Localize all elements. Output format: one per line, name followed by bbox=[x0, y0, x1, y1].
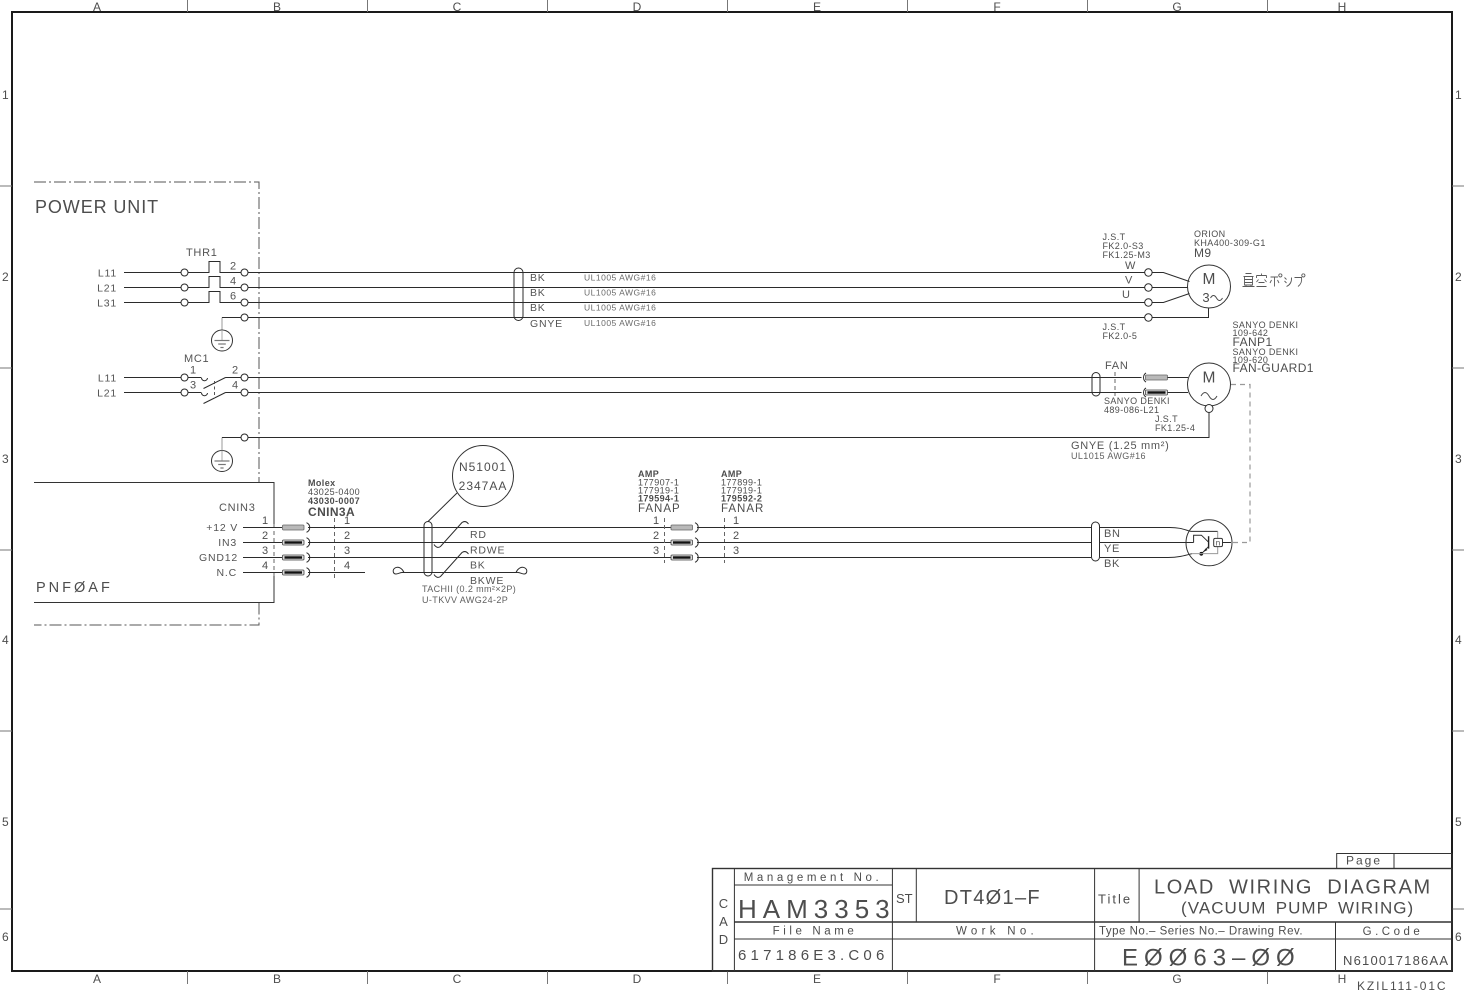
wire crimp2 to fan motor bbox=[1168, 392, 1189, 394]
THR1 heater element pole 1 bbox=[188, 262, 241, 273]
svg-text:2347AA: 2347AA bbox=[459, 479, 508, 493]
svg-text:1: 1 bbox=[1455, 88, 1462, 102]
svg-text:RDWE: RDWE bbox=[470, 545, 505, 557]
crimp contact CNIN3 pin2 bbox=[283, 538, 310, 548]
svg-text:Title: Title bbox=[1098, 892, 1132, 907]
svg-text:G: G bbox=[1172, 0, 1181, 14]
crimp contact CNIN3 pin3 bbox=[283, 553, 310, 563]
wire L11 to THR1 bbox=[124, 272, 181, 274]
svg-text:IN3: IN3 bbox=[218, 537, 237, 549]
svg-text:FAN-GUARD1: FAN-GUARD1 bbox=[1233, 361, 1314, 375]
svg-text:RD: RD bbox=[470, 529, 487, 541]
FANAR mate dashed bbox=[724, 518, 726, 563]
svg-text:4: 4 bbox=[344, 560, 350, 572]
wire fan line 1 bbox=[248, 377, 1142, 379]
sensor output lead bbox=[1223, 542, 1232, 544]
svg-text:FANAP: FANAP bbox=[638, 503, 681, 515]
svg-text:W: W bbox=[1125, 260, 1136, 272]
frame column ticks top bbox=[188, 0, 1268, 12]
svg-text:E: E bbox=[813, 972, 821, 986]
svg-text:N51001: N51001 bbox=[459, 460, 507, 474]
power unit boundary (dash-dot box, open left) bbox=[34, 182, 259, 625]
wire YE into sensor bbox=[1100, 542, 1194, 544]
vacuum pump kanji label bbox=[1243, 274, 1305, 287]
wire PE from ground to terminal bbox=[222, 317, 241, 319]
fan sensor circle bbox=[1186, 520, 1232, 566]
svg-text:UL1015 AWG#16: UL1015 AWG#16 bbox=[1071, 451, 1146, 461]
svg-text:U: U bbox=[1122, 289, 1131, 301]
svg-text:V: V bbox=[1125, 275, 1133, 287]
svg-text:2: 2 bbox=[1455, 270, 1462, 284]
wire YE run bbox=[697, 542, 1091, 544]
THR1 heater element pole 3 bbox=[188, 292, 241, 303]
svg-text:BK: BK bbox=[530, 272, 546, 284]
FANAP mate dashed bbox=[664, 518, 666, 563]
svg-text:179594-1: 179594-1 bbox=[638, 494, 679, 504]
svg-text:3: 3 bbox=[653, 545, 659, 557]
CAD vertical text bbox=[719, 896, 728, 947]
wire GND12 pin3 bbox=[243, 557, 282, 559]
terminal circle THR1-6 bbox=[241, 299, 248, 306]
cable capsule fan sensor bbox=[1092, 522, 1100, 561]
svg-text:N.C: N.C bbox=[217, 567, 237, 579]
cable bundle capsule (pump wires) bbox=[514, 268, 523, 321]
svg-text:FAN: FAN bbox=[1105, 360, 1129, 372]
MC1 fixed contact pole 1 bbox=[188, 378, 208, 381]
svg-text:UL1005 AWG#16: UL1005 AWG#16 bbox=[584, 318, 656, 328]
wire V into motor bbox=[1152, 287, 1187, 289]
svg-text:2: 2 bbox=[262, 530, 268, 542]
terminal circle THR1-3 bbox=[181, 284, 188, 291]
AMP FANAR connector note bbox=[721, 469, 764, 515]
svg-text:4: 4 bbox=[1455, 633, 1462, 647]
PNF0AF connector edge dashed bbox=[273, 524, 275, 576]
wire BKWE stub bbox=[308, 572, 365, 574]
CNIN3A pin numbers bbox=[344, 515, 350, 572]
frame row ticks bbox=[0, 186, 1464, 909]
balloon N51001 2347AA bbox=[453, 446, 514, 507]
sensor base lead bbox=[1194, 535, 1209, 542]
svg-text:MC1: MC1 bbox=[184, 353, 209, 365]
wire RD run bbox=[308, 527, 671, 529]
wire W into motor bbox=[1152, 273, 1189, 282]
wire GNYE fan ground (long) bbox=[248, 413, 1209, 438]
svg-text:C: C bbox=[453, 0, 462, 14]
terminal circle W bbox=[1145, 269, 1152, 276]
J.S.T FK2.0-S3 FK1.25-M3 note bbox=[1103, 232, 1151, 260]
AMP FANAP connector note bbox=[638, 469, 681, 515]
svg-text:L11: L11 bbox=[98, 268, 117, 280]
terminal circle U bbox=[1145, 299, 1152, 306]
sensor n box bbox=[1214, 538, 1223, 546]
wire L21 to THR1 bbox=[124, 287, 181, 289]
svg-text:179592-2: 179592-2 bbox=[721, 494, 762, 504]
svg-text:Type No.– Series No.– Drawing: Type No.– Series No.– Drawing Rev. bbox=[1099, 926, 1303, 938]
svg-text:5: 5 bbox=[2, 815, 9, 829]
svg-text:3: 3 bbox=[1202, 290, 1209, 305]
svg-text:M: M bbox=[1203, 370, 1216, 387]
wire BK into sensor bbox=[1100, 554, 1192, 558]
svg-text:E: E bbox=[813, 0, 821, 14]
svg-text:2: 2 bbox=[2, 270, 9, 284]
ground symbol 2 bbox=[212, 451, 233, 472]
sensor collector rail bbox=[1191, 530, 1218, 532]
wire BK2 run bbox=[697, 557, 1091, 559]
svg-text:6: 6 bbox=[230, 291, 236, 303]
wire L21 to MC1 bbox=[124, 392, 181, 394]
svg-text:2: 2 bbox=[230, 261, 236, 273]
svg-text:2: 2 bbox=[344, 530, 350, 542]
Molex connector note bbox=[308, 478, 360, 519]
CNIN3A mate dashed line bbox=[334, 518, 336, 578]
terminal circle MC1-1 bbox=[181, 374, 188, 381]
svg-text:4: 4 bbox=[230, 276, 236, 288]
frame column letters top bbox=[93, 0, 1346, 14]
terminal circle THR1-2 bbox=[241, 269, 248, 276]
svg-text:D: D bbox=[633, 972, 642, 986]
svg-text:A: A bbox=[93, 972, 101, 986]
fan crimp terminal 1 bbox=[1144, 373, 1168, 382]
svg-text:PNFØAF: PNFØAF bbox=[36, 580, 113, 596]
fan motor circle bbox=[1188, 363, 1231, 406]
terminal circle THR1-4 bbox=[241, 284, 248, 291]
svg-text:C: C bbox=[453, 972, 462, 986]
svg-text:FK1.25-M3: FK1.25-M3 bbox=[1103, 250, 1151, 260]
svg-text:EØØ63–ØØ: EØØ63–ØØ bbox=[1122, 945, 1301, 972]
svg-text:LOAD WIRING DIAGRAM: LOAD WIRING DIAGRAM bbox=[1154, 877, 1432, 899]
sensor emitter dot bbox=[1199, 552, 1203, 556]
svg-text:GNYE: GNYE bbox=[530, 318, 563, 330]
svg-text:489-086-L21: 489-086-L21 bbox=[1104, 405, 1159, 415]
terminal circle PE bbox=[241, 314, 248, 321]
FANAP pin numbers bbox=[653, 515, 659, 557]
ground symbol 1 bbox=[212, 330, 233, 351]
ORION KHA400-309-G1 M9 note bbox=[1194, 229, 1266, 260]
svg-text:L11: L11 bbox=[98, 373, 117, 385]
terminal circle THR1-1 bbox=[181, 269, 188, 276]
coiled wire BKWE bbox=[402, 572, 517, 574]
cable capsule CNIN3A bbox=[424, 522, 432, 577]
wire L11 to MC1 bbox=[124, 377, 181, 379]
wire GNYE to motor bbox=[248, 317, 1145, 319]
FANAR pin numbers bbox=[733, 515, 739, 557]
ground symbol 2 stem bbox=[221, 438, 223, 451]
THR1 heater element pole 2 bbox=[188, 277, 241, 288]
frame column letters bottom bbox=[93, 972, 1346, 986]
svg-text:N610017186AA: N610017186AA bbox=[1343, 953, 1449, 968]
svg-text:+12 V: +12 V bbox=[206, 522, 238, 534]
svg-text:Page: Page bbox=[1346, 854, 1382, 868]
svg-text:1: 1 bbox=[2, 88, 9, 102]
svg-text:BK: BK bbox=[530, 287, 546, 299]
svg-text:BN: BN bbox=[1104, 528, 1121, 540]
MC1 moving blade pole 1 bbox=[204, 378, 226, 389]
crimp contact FANAP pin2 bbox=[671, 538, 698, 548]
svg-text:2: 2 bbox=[733, 530, 739, 542]
frame column ticks bottom bbox=[188, 971, 1268, 984]
coiled wire BKWE left end bbox=[393, 567, 404, 574]
wire BN run bbox=[697, 527, 1091, 529]
sensor emitter bbox=[1202, 547, 1209, 554]
svg-text:CNIN3A: CNIN3A bbox=[308, 505, 355, 519]
wire BK run bbox=[308, 557, 671, 559]
fan guard dashed outline bbox=[1231, 385, 1250, 543]
ground symbol 1 stem bbox=[221, 318, 223, 331]
motor M9 circle bbox=[1188, 265, 1231, 308]
terminal circle MC1-3 bbox=[181, 389, 188, 396]
crimp contact CNIN3 pin1 bbox=[283, 523, 310, 533]
terminal circle PE2 bbox=[241, 434, 248, 441]
svg-text:FK1.25-4: FK1.25-4 bbox=[1155, 423, 1195, 433]
svg-text:H: H bbox=[1338, 972, 1347, 986]
svg-text:M: M bbox=[1203, 271, 1216, 288]
svg-text:G: G bbox=[1172, 972, 1181, 986]
svg-text:DT4Ø1–F: DT4Ø1–F bbox=[944, 887, 1041, 909]
svg-text:1: 1 bbox=[653, 515, 659, 527]
wire PE2 to terminal bbox=[222, 437, 241, 439]
svg-text:FANAR: FANAR bbox=[721, 503, 764, 515]
fan crimp terminal 2 bbox=[1144, 388, 1168, 397]
terminal circle MC1-4 bbox=[241, 389, 248, 396]
svg-text:POWER UNIT: POWER UNIT bbox=[35, 197, 159, 217]
svg-text:A: A bbox=[719, 914, 728, 929]
svg-text:Work No.: Work No. bbox=[956, 926, 1038, 938]
svg-text:3: 3 bbox=[344, 545, 350, 557]
svg-text:C: C bbox=[719, 896, 728, 911]
title block page cell bbox=[1337, 854, 1452, 869]
wire MC1-2 bbox=[226, 377, 242, 379]
terminal circle THR1-5 bbox=[181, 299, 188, 306]
svg-text:TACHII (0.2 mm²×2P): TACHII (0.2 mm²×2P) bbox=[422, 584, 516, 594]
terminal circle MC1-2 bbox=[241, 374, 248, 381]
wire U phase to motor bbox=[248, 272, 1145, 274]
svg-text:M9: M9 bbox=[1194, 246, 1211, 260]
svg-text:B: B bbox=[273, 972, 281, 986]
svg-text:n: n bbox=[1216, 539, 1220, 548]
svg-text:6: 6 bbox=[2, 930, 9, 944]
title block grid bbox=[713, 869, 1453, 972]
twisted pair symbol 2 bbox=[434, 552, 469, 578]
svg-text:UL1005 AWG#16: UL1005 AWG#16 bbox=[584, 288, 656, 298]
svg-text:FK2.0-5: FK2.0-5 bbox=[1103, 331, 1138, 341]
svg-text:HAM3353: HAM3353 bbox=[738, 894, 896, 924]
CNIN3 pin numbers bbox=[262, 515, 268, 572]
svg-text:D: D bbox=[633, 0, 642, 14]
svg-text:3: 3 bbox=[262, 545, 268, 557]
svg-text:L21: L21 bbox=[97, 388, 117, 400]
svg-text:A: A bbox=[93, 0, 101, 14]
svg-text:F: F bbox=[993, 0, 1000, 14]
svg-text:F: F bbox=[993, 972, 1000, 986]
svg-text:4: 4 bbox=[2, 633, 9, 647]
svg-text:3: 3 bbox=[2, 452, 9, 466]
svg-text:H: H bbox=[1338, 0, 1347, 14]
wire PE into motor bottom bbox=[1152, 308, 1208, 317]
wire N.C pin4 bbox=[243, 572, 282, 574]
svg-text:THR1: THR1 bbox=[186, 247, 218, 259]
wire BN into sensor bbox=[1100, 528, 1191, 532]
J.S.T FK2.0-5 note bbox=[1103, 322, 1138, 341]
fan motor bottom terminal circle bbox=[1205, 405, 1213, 413]
wire MC1-4 bbox=[226, 392, 242, 394]
balloon leader line bbox=[428, 493, 457, 522]
svg-text:3: 3 bbox=[733, 545, 739, 557]
J.S.T FK1.25-4 note bbox=[1155, 414, 1195, 433]
svg-text:617186E3.C06: 617186E3.C06 bbox=[738, 947, 889, 964]
svg-text:3: 3 bbox=[1455, 452, 1462, 466]
svg-text:6: 6 bbox=[1455, 930, 1462, 944]
wire L31 to THR1 bbox=[124, 302, 181, 304]
svg-text:YE: YE bbox=[1104, 543, 1120, 555]
svg-text:(VACUUM PUMP WIRING): (VACUUM PUMP WIRING) bbox=[1181, 899, 1414, 918]
svg-text:2: 2 bbox=[232, 365, 238, 377]
svg-text:1: 1 bbox=[190, 365, 196, 377]
wire RDWE run bbox=[308, 542, 671, 544]
svg-text:B: B bbox=[273, 0, 281, 14]
SANYO DENKI 489-086-L21 note bbox=[1104, 396, 1170, 415]
svg-text:5: 5 bbox=[1455, 815, 1462, 829]
svg-text:1: 1 bbox=[262, 515, 268, 527]
svg-text:G.Code: G.Code bbox=[1363, 926, 1424, 938]
sensor emitter rail (gray) bbox=[1192, 547, 1218, 554]
svg-text:File Name: File Name bbox=[773, 926, 858, 938]
terminal circle PE motor bbox=[1145, 314, 1152, 321]
wire crimp1 to fan motor bbox=[1168, 377, 1189, 379]
fan mate dashed line bbox=[1114, 372, 1116, 396]
svg-text:D: D bbox=[719, 932, 728, 947]
PNF0AF unit box (open left) bbox=[34, 483, 274, 603]
MC1 fixed contact pole 2 bbox=[188, 393, 208, 396]
svg-text:4: 4 bbox=[262, 560, 268, 572]
wire V phase to motor bbox=[248, 287, 1145, 289]
svg-text:3: 3 bbox=[190, 380, 196, 392]
svg-text:1: 1 bbox=[733, 515, 739, 527]
wire U into motor bbox=[1152, 294, 1189, 303]
svg-text:2: 2 bbox=[653, 530, 659, 542]
MC1 moving blade pole 2 bbox=[204, 393, 226, 404]
wire fan line 2 bbox=[248, 392, 1142, 394]
crimp contact FANAP pin3 bbox=[671, 553, 698, 563]
fan cable capsule bbox=[1092, 373, 1100, 397]
crimp contact CNIN3 pin4 bbox=[283, 568, 310, 578]
wire +12V pin1 bbox=[243, 527, 282, 529]
fan motor tilde bbox=[1201, 393, 1217, 400]
svg-text:UL1005 AWG#16: UL1005 AWG#16 bbox=[584, 273, 656, 283]
svg-text:GND12: GND12 bbox=[199, 552, 238, 564]
svg-text:U-TKVV AWG24-2P: U-TKVV AWG24-2P bbox=[422, 595, 508, 605]
crimp contact FANAP pin1 bbox=[671, 523, 698, 533]
svg-text:CNIN3: CNIN3 bbox=[219, 502, 256, 514]
wire IN3 pin2 bbox=[243, 542, 282, 544]
sensor base bar bbox=[1208, 536, 1210, 548]
MC1 mechanical link bbox=[214, 381, 216, 398]
coiled wire BKWE right end bbox=[516, 567, 527, 574]
svg-text:4: 4 bbox=[232, 380, 238, 392]
svg-text:L21: L21 bbox=[97, 283, 117, 295]
SANYO DENKI 109-642 FANP1 note bbox=[1233, 320, 1314, 375]
svg-text:KZIL111-01C: KZIL111-01C bbox=[1357, 979, 1448, 992]
svg-text:ST: ST bbox=[896, 891, 913, 906]
svg-text:BK: BK bbox=[530, 302, 546, 314]
svg-text:BK: BK bbox=[1104, 558, 1120, 570]
svg-text:Management No.: Management No. bbox=[744, 872, 883, 884]
twisted pair symbol 1 bbox=[434, 522, 469, 548]
svg-text:L31: L31 bbox=[97, 298, 117, 310]
terminal circle V bbox=[1145, 284, 1152, 291]
motor M9 tilde bbox=[1211, 296, 1223, 301]
wire W phase to motor bbox=[248, 302, 1145, 304]
svg-text:UL1005 AWG#16: UL1005 AWG#16 bbox=[584, 303, 656, 313]
svg-text:BK: BK bbox=[470, 560, 486, 572]
sensor emitter arrow bbox=[1203, 548, 1208, 552]
sensor collector drop (gray) bbox=[1217, 531, 1219, 539]
